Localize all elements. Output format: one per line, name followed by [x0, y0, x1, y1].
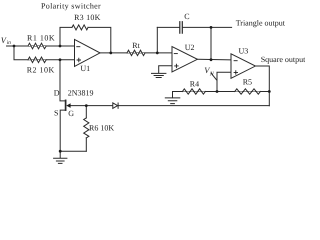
svg-text:G: G: [68, 109, 74, 118]
svg-text:Rt: Rt: [132, 41, 140, 50]
svg-text:U3: U3: [239, 47, 249, 56]
svg-text:R3 10K: R3 10K: [74, 13, 101, 22]
svg-text:U1: U1: [80, 64, 90, 73]
svg-text:Polarity switcher: Polarity switcher: [41, 1, 101, 10]
svg-text:R4: R4: [190, 80, 199, 89]
svg-text:R2 10K: R2 10K: [27, 65, 55, 74]
svg-text:S: S: [54, 109, 58, 118]
svg-text:Square output: Square output: [261, 55, 305, 64]
svg-text:2N3819: 2N3819: [68, 88, 94, 97]
svg-text:C: C: [184, 12, 189, 21]
svg-text:D: D: [54, 88, 60, 97]
svg-text:U2: U2: [185, 43, 195, 52]
svg-text:R1 10K: R1 10K: [27, 34, 55, 43]
svg-text:Triangle output: Triangle output: [236, 19, 286, 28]
svg-text:R6 10K: R6 10K: [89, 123, 114, 132]
svg-text:in: in: [7, 40, 12, 46]
svg-text:R5: R5: [243, 78, 252, 87]
